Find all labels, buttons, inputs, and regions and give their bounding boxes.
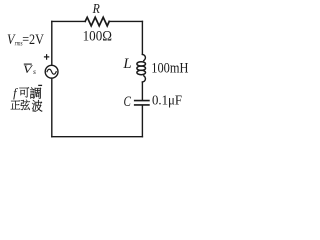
capacitor C bottom plate (135, 104, 149, 106)
inductor L coil loops (137, 62, 146, 66)
wire right vertical to inductor (141, 21, 143, 54)
text 正弦波 (sine wave) (11, 100, 21, 109)
source Vs sine wave (47, 69, 56, 74)
resistor R zigzag (85, 17, 109, 26)
text 可調 (adjustable) (19, 87, 29, 97)
wire left vertical bottom (source to bottom rail) (51, 78, 53, 137)
svg-text:0.1μF: 0.1μF (152, 94, 182, 109)
wire inductor to capacitor (141, 82, 143, 100)
wire top rail left (52, 20, 85, 22)
wire capacitor to bottom rail (141, 106, 143, 137)
svg-text:s: s (33, 67, 36, 76)
capacitor C top plate (135, 100, 149, 102)
wire top rail right (109, 20, 142, 22)
plus sign (44, 54, 49, 60)
svg-text:=2V: =2V (22, 32, 44, 48)
svg-text:C: C (124, 94, 132, 110)
label Vs overbar (24, 63, 32, 65)
svg-text:100mH: 100mH (151, 61, 188, 77)
svg-text:100Ω: 100Ω (83, 28, 112, 44)
svg-text:V: V (23, 64, 33, 76)
svg-text:R: R (92, 1, 101, 16)
inductor L coil top lead (142, 54, 145, 60)
minus sign (38, 84, 42, 86)
wire bottom rail (52, 136, 143, 138)
source Vs circle (45, 65, 58, 78)
wire left vertical top (source to top rail) (51, 21, 53, 65)
inductor L coil bottom lead (142, 76, 145, 82)
svg-text:L: L (122, 56, 131, 72)
